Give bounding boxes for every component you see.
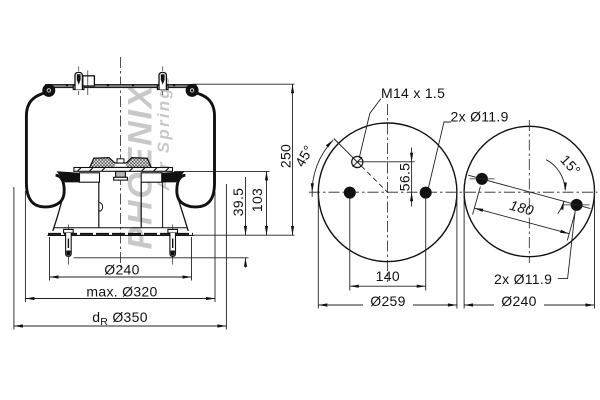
base plate top line [54,227,187,229]
bolt B2 centerline [172,225,174,265]
dim line 259 [318,304,363,306]
15 deg arc upper [546,160,565,190]
ext line 240R right [594,189,596,309]
circle C2 [464,126,594,256]
stud S2 core [161,74,165,85]
bolt B1 centerline [67,225,69,265]
hole H3 (upper left) [476,173,488,185]
top plate [46,85,197,88]
arrow 56.5 top [410,153,413,162]
M14 fitting symbol [352,156,363,167]
ext line 180 left [473,187,481,215]
bumper hatch right [126,158,151,168]
bolt B1 tip [66,251,70,256]
dim line 240R [464,304,494,306]
leader 2x d11.9 bottom [558,211,575,279]
stud S2 body [159,72,166,89]
circle C1 [318,123,457,262]
air fitting boss rectangle [83,76,95,86]
rivet dots on plate [66,84,175,86]
dashed line M14 to center [361,166,387,192]
side view arrowheads [14,84,294,327]
piston window left [80,173,100,182]
top view: plate circle [292,85,509,309]
bellows wall right [177,92,215,207]
piston top plate [74,168,173,172]
bellows wall left [26,92,64,207]
svg-text:250: 250 [278,144,294,168]
piston column line c [162,182,164,227]
ext line 259 right [456,190,458,309]
15 deg arc lower [558,201,564,214]
bumper bolt head [117,159,124,163]
piston skirt left [53,193,64,232]
svg-text:140: 140 [376,268,400,284]
dim line 56.5 [411,148,413,207]
svg-text:45°: 45° [292,142,317,169]
dim line 103 [266,171,268,235]
arrow 56.5 bottom [410,192,413,201]
watermark Air Springs [154,77,173,192]
svg-text:Ø240: Ø240 [501,293,536,309]
centerline side view [119,57,121,268]
bead clamp right (black) [162,171,185,182]
dim line 250 [292,84,294,235]
arrow 45 arc upper [326,140,333,148]
center bolt flange [114,177,128,180]
bumper outline [90,158,151,168]
bolt B1 slot [67,239,69,249]
ext line max320 left [24,191,26,302]
piston hole detail [99,203,103,212]
svg-text:M14 x 1.5: M14 x 1.5 [381,85,445,101]
piston window right [141,173,162,182]
ext line 180 right [567,213,575,241]
arrow 45 arc lower [311,183,314,192]
common horizontal axis of circular views [309,191,598,193]
axis through holes [468,175,590,208]
45 deg reference line [334,139,354,159]
dim line 180 [474,208,569,234]
ext line d240 right [191,237,193,281]
side view dimension texts [86,144,293,328]
svg-text:103: 103 [249,188,265,212]
bolt B1 flange [64,229,74,233]
bead clamp left (black) [57,171,80,182]
ext line 103 [174,170,270,172]
ext line 240R left [463,190,465,309]
bolt B1 shaft [66,233,72,256]
bumper hatch left [90,158,115,168]
svg-text:39.5: 39.5 [230,188,246,216]
svg-text:max. Ø320: max. Ø320 [86,284,157,300]
bolt B2 slot [172,239,174,249]
ext line 259 left [317,190,319,309]
45 deg arc [312,140,333,197]
rolled edge left [45,86,54,95]
hole H4 (lower right) [571,199,583,211]
dim line max320 [25,298,215,300]
base plate dashed band [48,233,193,235]
ext line max320 right [214,192,216,302]
ext line 39.5 bottom [74,257,249,259]
bottom view: piston circle [464,120,594,309]
ext line dR right [225,184,227,330]
side view dimensions [14,84,295,329]
dim line 39.5 upper [245,177,247,235]
bolt B2 shaft [170,233,176,256]
bolt B2 flange [168,229,178,233]
ext line common bottom [194,234,295,236]
center mark H3 [470,178,495,180]
svg-text:56.5: 56.5 [396,163,412,191]
svg-text:Ø240: Ø240 [104,262,139,278]
stud S2 centerline [162,67,164,71]
rolled edge right [188,86,197,95]
base plate bottom line [48,234,194,236]
ext line 140 left [349,199,351,291]
ext line d240 left [49,237,51,281]
leader 2x d11.9 top [429,122,452,188]
air fitting boss centerline [87,71,89,96]
ext line dR left [13,187,15,330]
ext line 140 right [425,199,427,291]
side view: air spring assembly [26,57,214,268]
watermark PHOENIX [122,83,160,249]
piston column line b [140,182,142,227]
piston skirt right [179,201,188,231]
dim line 140 [350,285,426,287]
center mark H4 [564,204,590,206]
svg-text:Ø259: Ø259 [370,293,405,309]
ext line 56.5 at M14 height [357,161,414,163]
bolt B2 tip [171,251,175,256]
dim line 39.5 lower [245,258,247,268]
vertical centerline C2 [528,120,530,263]
stud S1 core [77,74,81,85]
dim line dR350 [14,325,227,327]
stud S1 flange [73,85,84,89]
svg-text:180: 180 [508,197,536,219]
stud S2 flange [157,85,168,89]
stud S1 centerline [78,67,80,71]
stud S1 body [75,72,82,89]
svg-text:2x Ø11.9: 2x Ø11.9 [494,271,552,287]
hole H2 (right stud) [420,187,432,199]
piston plate hatch ticks [78,168,169,171]
svg-text:2x Ø11.9: 2x Ø11.9 [451,109,509,125]
vertical centerline C1 [387,104,389,282]
hole H1 (left stud) [344,187,356,199]
svg-text:dR Ø350: dR Ø350 [92,309,148,328]
dim line d240 [50,276,192,278]
piston column line a [98,182,100,227]
ext line 250 top [193,83,295,85]
leader M14 [359,99,381,159]
center bolt nut [116,172,126,178]
